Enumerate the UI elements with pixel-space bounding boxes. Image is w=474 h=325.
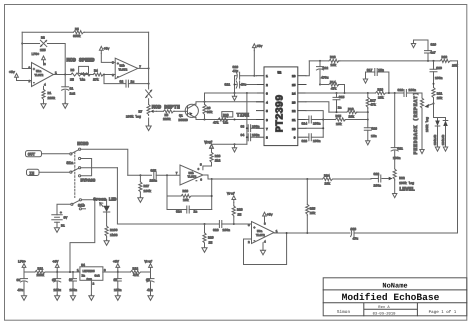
svg-text:R13: R13 (330, 55, 336, 59)
svg-text:+: + (254, 226, 256, 229)
svg-text:C7: C7 (69, 278, 73, 282)
capacitor C6 100u (52, 272, 61, 296)
svg-text:C15: C15 (339, 95, 345, 99)
svg-text:100k log: 100k log (425, 117, 429, 132)
svg-text:10k: 10k (331, 63, 337, 67)
svg-text:47u: 47u (241, 83, 247, 87)
wire feedback column (167, 175, 212, 209)
svg-text:47k: 47k (213, 120, 219, 124)
node junction (246, 92, 248, 94)
svg-text:S1b: S1b (78, 204, 86, 209)
node junction (433, 83, 435, 85)
svg-text:3: 3 (266, 93, 268, 96)
wire pin 3 ground line (205, 93, 257, 102)
wire Q1 emitter to TIME line (195, 117, 264, 119)
svg-text:R1: R1 (48, 91, 52, 95)
svg-text:100n: 100n (252, 133, 260, 137)
svg-text:03-09-2010: 03-09-2010 (373, 311, 397, 316)
resistor R15 10k (336, 114, 347, 126)
connector OUT (26, 151, 70, 158)
pin 12 (298, 110, 306, 112)
svg-text:C8: C8 (114, 278, 118, 282)
svg-text:LEVEL: LEVEL (399, 186, 415, 192)
wire wiper to R19 (429, 104, 434, 106)
capacitor C14 100n (302, 116, 324, 125)
svg-text:C11: C11 (225, 83, 231, 87)
svg-text:47k: 47k (331, 87, 337, 91)
wire LED node down to power feed (70, 200, 95, 272)
pin 3 (257, 92, 265, 94)
capacitor C1 (62, 75, 76, 104)
svg-text:C3: C3 (241, 124, 245, 128)
potentiometer R3 1M lin (70, 66, 90, 81)
svg-text:R22: R22 (399, 176, 405, 180)
ground below C9 (148, 295, 153, 301)
wire pin10 stub (306, 127, 323, 129)
svg-text:20k: 20k (437, 96, 443, 100)
power +5v at U1A (9, 70, 18, 80)
ground below C17 left (363, 79, 367, 83)
svg-text:1n: 1n (338, 105, 342, 109)
svg-text:1M: 1M (209, 240, 213, 244)
capacitor C19 4n7 with ground (411, 40, 436, 62)
svg-text:Rev A: Rev A (378, 305, 390, 310)
ground below C6 (55, 295, 60, 301)
node junction (234, 84, 236, 86)
node junction (21, 43, 23, 45)
resistor R100 1k33 (105, 226, 118, 241)
wire pin13 riser (306, 102, 329, 112)
wire +5v to U1A pin 2 (17, 79, 32, 81)
svg-text:R16: R16 (348, 107, 354, 111)
svg-text:R24: R24 (324, 173, 330, 177)
resistor R23 2k2 (203, 152, 221, 170)
svg-text:TL072: TL072 (119, 68, 128, 71)
resistor R4 27k (93, 69, 104, 82)
wire to C16 (367, 112, 369, 128)
op-amp U1A TL072 (29, 63, 58, 87)
dashed gang line S1a-S1b (74, 152, 76, 198)
wire U1A output (54, 74, 71, 76)
node junction (336, 111, 338, 113)
capacitor C17 15n (366, 68, 389, 93)
node junction (286, 232, 288, 234)
wire C10/C11 common to pin3 line (234, 76, 236, 93)
capacitor C5 47u (17, 272, 28, 296)
svg-text:+5v: +5v (9, 70, 15, 74)
svg-text:lin: lin (223, 120, 229, 124)
pin 2 (257, 84, 265, 86)
svg-text:1n: 1n (194, 210, 198, 214)
svg-text:C18: C18 (398, 88, 404, 92)
svg-text:S1a: S1a (67, 161, 75, 166)
node junction (103, 74, 105, 76)
resistor R18 10k (376, 87, 387, 99)
svg-text:IN: IN (29, 171, 34, 176)
svg-text:100n: 100n (374, 183, 382, 187)
wire rail corner down right side (457, 61, 459, 233)
svg-text:PT2399: PT2399 (275, 95, 287, 133)
svg-text:R25: R25 (310, 206, 316, 210)
svg-text:100n: 100n (435, 76, 443, 80)
wire S1b to LED node (82, 199, 107, 201)
ground below D2 (435, 147, 439, 151)
svg-text:10k: 10k (183, 198, 189, 202)
svg-text:R4: R4 (94, 69, 98, 73)
svg-text:FEEDBACK (REPEAT): FEEDBACK (REPEAT) (413, 92, 419, 155)
node junction (344, 92, 346, 94)
node junction (306, 178, 308, 180)
transistor Q1 BC560 (179, 104, 199, 122)
svg-text:C24: C24 (176, 210, 182, 214)
wire R2 row (22, 44, 65, 75)
wire output row to right edge (274, 232, 458, 234)
ground below R19 (420, 150, 424, 154)
wire ECHO contact to C25 junction (81, 149, 128, 175)
svg-text:15n: 15n (371, 134, 377, 138)
capacitor C3 100n (241, 124, 260, 132)
svg-text:15: 15 (292, 84, 296, 87)
node junction (148, 83, 150, 85)
net +5V (113, 260, 120, 273)
wire pin15 row (320, 85, 345, 94)
wire Vref row (212, 143, 247, 145)
node junction (319, 84, 321, 86)
svg-text:100k log: 100k log (126, 115, 141, 119)
capacitor C9 47u (146, 272, 154, 296)
svg-text:MOD SPEED: MOD SPEED (67, 58, 95, 64)
wire output column x=148.6 (148, 32, 150, 125)
wire R16 row (329, 111, 368, 113)
pin 15 (298, 84, 306, 86)
resistor R16 10k (347, 107, 358, 118)
svg-text:C9: C9 (146, 278, 150, 282)
node junction (166, 174, 168, 176)
svg-text:47u: 47u (233, 69, 239, 73)
capacitor C23 47u (351, 227, 359, 241)
node junction (234, 143, 236, 145)
svg-text:C12: C12 (323, 66, 329, 70)
resistor R8 220R (157, 110, 188, 121)
ground below R100 (104, 240, 109, 246)
svg-text:U1b: U1b (120, 64, 125, 68)
wire pin12/pin10 common column (306, 111, 323, 138)
potentiometer R19 FEEDBACK 100k log (413, 92, 429, 155)
svg-text:C4: C4 (241, 133, 245, 137)
svg-text:C22: C22 (374, 172, 380, 176)
wire dry tap from S1a to bottom row (81, 167, 118, 169)
svg-text:TL072: TL072 (35, 74, 44, 77)
capacitor C22 100n (374, 172, 389, 187)
resistor R11 220R (35, 267, 46, 277)
svg-text:C2: C2 (120, 80, 124, 84)
svg-text:1N4148: 1N4148 (434, 135, 437, 146)
svg-text:lin: lin (80, 77, 86, 81)
svg-text:9: 9 (294, 137, 296, 140)
svg-text:R27: R27 (144, 184, 150, 188)
svg-text:470u: 470u (321, 76, 329, 80)
node junction (204, 223, 206, 225)
node junction (64, 74, 66, 76)
svg-text:1: 1 (266, 75, 268, 78)
svg-text:B1: B1 (61, 223, 65, 227)
svg-text:Simon: Simon (337, 309, 351, 315)
capacitor C15 1n (333, 92, 345, 112)
LED D1 green (100, 200, 110, 226)
net Vref above R23 (205, 141, 214, 152)
svg-text:100n: 100n (393, 156, 401, 160)
svg-text:R5: R5 (75, 27, 79, 31)
svg-text:R20: R20 (442, 55, 448, 59)
net LFO+ (18, 260, 26, 272)
node junction (148, 67, 150, 69)
wire Q1 collector to pin4 line (195, 102, 264, 104)
node junction (234, 119, 236, 121)
node junction (253, 75, 255, 77)
svg-text:+: + (198, 168, 200, 171)
svg-text:C14: C14 (302, 121, 308, 125)
svg-text:R2: R2 (41, 36, 45, 40)
svg-text:-: - (196, 180, 198, 183)
capacitor C24 1n (167, 206, 212, 214)
ground at pin 3 (232, 93, 236, 101)
svg-text:Vref: Vref (145, 260, 153, 264)
regulator U4 LM78M05 (77, 263, 106, 285)
capacitor C13 100n (302, 134, 324, 143)
resistor R24 10k (323, 173, 334, 185)
svg-text:1M: 1M (70, 77, 74, 81)
trimmer R6 (146, 90, 152, 98)
wire into U1B (104, 74, 115, 76)
capacitor C4 100n (241, 133, 260, 141)
svg-text:U3b: U3b (189, 171, 194, 175)
svg-text:C13: C13 (302, 139, 308, 143)
svg-text:10k: 10k (349, 114, 355, 118)
svg-text:220n: 220n (150, 179, 158, 183)
svg-text:100n: 100n (313, 139, 321, 143)
resistor R20 20k (440, 55, 458, 67)
pin 8 (257, 136, 265, 138)
ground below U4 (89, 295, 94, 301)
resistor R5 (73, 27, 85, 38)
wire (82, 74, 94, 76)
svg-text:R3: R3 (71, 68, 75, 72)
svg-text:OUT: OUT (28, 153, 36, 158)
svg-text:In: In (82, 275, 86, 278)
svg-text:680k: 680k (73, 34, 81, 38)
svg-text:5: 5 (266, 110, 268, 113)
svg-text:-: - (117, 75, 119, 78)
resistor R17 47k (366, 92, 376, 112)
resistor R29 1M (203, 224, 214, 248)
svg-text:Vref: Vref (205, 141, 213, 145)
wire top rail (309, 60, 457, 62)
svg-text:11: 11 (292, 119, 296, 122)
svg-text:U1a: U1a (36, 70, 41, 73)
svg-text:220R: 220R (48, 96, 56, 100)
svg-text:R11: R11 (38, 267, 44, 271)
svg-text:R26: R26 (183, 189, 189, 193)
pin 1 (257, 75, 265, 77)
wire U3b output (203, 175, 212, 179)
node junction (234, 92, 236, 94)
svg-text:4: 4 (266, 101, 268, 104)
ground below Vref row (232, 144, 236, 152)
node junction (211, 195, 213, 197)
power +5v at U1B (99, 46, 115, 62)
node junction (433, 103, 435, 105)
resistor R27 100k (139, 175, 151, 197)
svg-text:39k: 39k (207, 110, 213, 114)
svg-text:1M: 1M (238, 212, 242, 216)
wire power rail (24, 271, 151, 273)
svg-text:R28: R28 (237, 208, 243, 212)
resistor R21 20k (432, 88, 443, 104)
svg-text:TL072: TL072 (256, 234, 265, 237)
svg-text:100n: 100n (252, 124, 260, 128)
capacitor C11 47u (225, 81, 257, 88)
node junction (94, 199, 96, 201)
node junction (319, 60, 321, 62)
svg-text:1u: 1u (131, 80, 135, 84)
svg-text:47k: 47k (370, 102, 376, 106)
pin 13 (298, 101, 306, 103)
pin 10 (298, 127, 306, 129)
ground below C7 (70, 295, 75, 301)
wire R15 row pin11 (323, 119, 368, 121)
wire from switch to C25 (128, 174, 152, 176)
power +5v at pin 1 (252, 44, 262, 76)
node junction (367, 111, 369, 113)
ground below C1 (63, 103, 68, 109)
op-amp U3a TL072 (248, 222, 278, 245)
wire left column to U1A + input (22, 32, 31, 68)
pin 16 (298, 75, 306, 77)
svg-text:4n7: 4n7 (430, 50, 436, 54)
svg-text:BYPASS: BYPASS (81, 178, 96, 183)
svg-text:C16: C16 (371, 126, 377, 130)
diode D2 1N4148 (434, 121, 440, 148)
net Vref right (145, 260, 153, 272)
svg-text:100n: 100n (409, 88, 417, 92)
net Vref (205, 140, 214, 151)
svg-text:R7: R7 (139, 109, 143, 113)
node junction (322, 119, 324, 121)
title block row separators (323, 290, 467, 316)
pin 6 (257, 119, 265, 121)
svg-text:R14: R14 (330, 80, 336, 84)
svg-text:R9: R9 (207, 106, 211, 110)
svg-text:100u: 100u (54, 288, 62, 292)
switch S1a (67, 148, 81, 177)
svg-text:14: 14 (292, 93, 296, 96)
svg-text:10k: 10k (325, 182, 331, 186)
svg-text:MOD DEPTH: MOD DEPTH (152, 104, 180, 110)
net +9V (53, 260, 60, 273)
ground below B1 (54, 227, 59, 233)
svg-text:LFO+: LFO+ (18, 260, 26, 264)
capacitor C25 220n (150, 169, 181, 183)
svg-text:R18: R18 (378, 87, 384, 91)
svg-text:+: + (117, 63, 119, 66)
ground below R29 (202, 247, 207, 253)
svg-text:1M5: 1M5 (40, 48, 46, 52)
svg-text:+: + (33, 68, 35, 71)
svg-text:C6: C6 (52, 278, 56, 282)
svg-text:Out: Out (95, 275, 100, 278)
svg-text:6: 6 (266, 119, 268, 122)
svg-text:U2: U2 (278, 71, 282, 75)
svg-text:100n: 100n (114, 288, 122, 292)
potentiometer R10 TIME 47k lin (213, 112, 233, 125)
svg-text:R29: R29 (208, 236, 214, 240)
svg-text:LFO+: LFO+ (32, 52, 40, 56)
svg-text:C23: C23 (351, 227, 357, 231)
svg-text:1u2: 1u2 (70, 91, 76, 95)
svg-text:-: - (33, 82, 35, 85)
node junction (306, 232, 308, 234)
svg-text:2: 2 (266, 84, 268, 87)
ground below C8 (115, 295, 120, 301)
svg-text:C17: C17 (367, 68, 373, 72)
svg-text:BC560: BC560 (179, 118, 188, 122)
node junction (204, 119, 206, 121)
ground below R1 (41, 100, 46, 108)
pin 9 (298, 136, 306, 138)
resistor R14 47k (329, 80, 340, 90)
capacitor C10 47u (233, 65, 257, 79)
ground below D3 (443, 147, 447, 151)
ground below R27 (138, 197, 143, 203)
svg-text:10k: 10k (336, 122, 342, 126)
power +5v at U3a (263, 212, 273, 223)
resistor R26 10k (181, 189, 192, 202)
pin 11 (298, 119, 306, 121)
wire pin16 riser to top rail (306, 61, 309, 76)
svg-text:13: 13 (292, 101, 296, 104)
node junction (211, 178, 213, 180)
node junction (388, 92, 390, 94)
pin 5 (257, 110, 265, 112)
wire feedback loop U3a (244, 233, 287, 265)
svg-text:7: 7 (266, 128, 268, 131)
svg-text:10k: 10k (310, 211, 316, 215)
svg-text:100n: 100n (70, 288, 78, 292)
svg-text:C26: C26 (213, 228, 219, 232)
svg-text:C20: C20 (436, 66, 442, 70)
svg-text:27k: 27k (93, 77, 99, 81)
svg-text:12: 12 (292, 110, 296, 113)
wire bypass loop (81, 159, 92, 176)
svg-text:+5v: +5v (104, 46, 110, 50)
switch S1b (71, 199, 86, 210)
svg-text:U4: U4 (81, 263, 85, 267)
capacitor C7 100n (69, 271, 77, 296)
svg-text:Q1: Q1 (179, 113, 183, 117)
svg-text:220R: 220R (163, 117, 171, 121)
wire C3/C4 common column (246, 93, 248, 144)
svg-text:100k log: 100k log (399, 181, 414, 185)
resistor R28 1M (232, 203, 243, 224)
node junction (367, 119, 369, 121)
connector IN (27, 169, 70, 176)
wire dry signal row (117, 168, 251, 224)
op-amp U1B TL072 (112, 58, 141, 78)
svg-text:100k: 100k (144, 189, 152, 193)
node junction (233, 223, 235, 225)
pin 7 (257, 127, 265, 129)
capacitor C21 100n (391, 93, 403, 169)
